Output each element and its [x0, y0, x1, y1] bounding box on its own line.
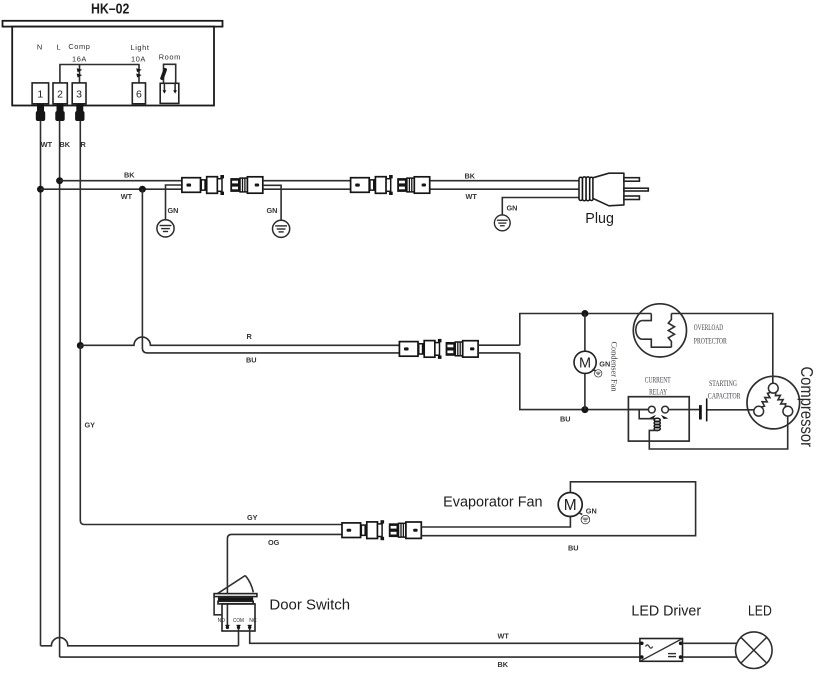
svg-text:BK: BK	[498, 660, 509, 669]
evaporator fan motor M	[558, 493, 582, 517]
connector pair 1 male	[182, 175, 224, 195]
terminal plug 3	[76, 104, 83, 112]
compressor terminal run	[783, 406, 793, 416]
wire R vertical from terminal 3	[79, 121, 81, 346]
wire WT bottom bus with hop	[41, 638, 239, 646]
LED driver terminal dots	[640, 642, 644, 646]
overload protector heater zigzag	[668, 314, 674, 348]
connector pair 4 male	[342, 520, 384, 540]
wire relay coil to compressor run	[649, 416, 787, 449]
wire capacitor to compressor start	[708, 409, 754, 411]
door switch left anchor step	[214, 597, 222, 615]
svg-text:COM: COM	[233, 618, 244, 624]
svg-text:CURRENT: CURRENT	[645, 375, 671, 384]
svg-text:WT: WT	[121, 192, 133, 201]
overload protector circle	[633, 304, 686, 357]
condenser fan motor M	[574, 351, 596, 373]
LED driver diagonal	[640, 639, 683, 662]
svg-text:3: 3	[76, 89, 82, 101]
wire BU to condenser box	[478, 352, 520, 354]
svg-text:LED Driver: LED Driver	[631, 603, 701, 619]
svg-text:CAPACITOR: CAPACITOR	[708, 391, 741, 400]
wire GN tap 3 plug	[502, 198, 580, 216]
door switch lever arc	[245, 576, 253, 593]
wire WT top run	[41, 188, 183, 190]
door switch lever	[215, 576, 246, 596]
compressor winding right	[775, 392, 785, 407]
svg-text:1: 1	[37, 89, 43, 101]
plug prong bottom	[624, 196, 640, 200]
LED lamp circle	[736, 632, 773, 669]
wire R to condenser box	[478, 344, 520, 346]
svg-text:L: L	[56, 43, 61, 52]
wire R run with hop	[80, 337, 399, 345]
svg-text:GY: GY	[247, 513, 258, 522]
wire comp contact drop	[79, 65, 81, 84]
svg-text:HK–02: HK–02	[91, 2, 130, 18]
compressor winding left	[761, 392, 770, 407]
overload protector bimetal path	[642, 314, 671, 348]
plug prong middle	[624, 188, 648, 191]
room connector box	[160, 83, 179, 103]
compressor terminal start	[754, 406, 764, 416]
svg-text:Compressor: Compressor	[797, 367, 817, 448]
connector pair 2 female	[397, 177, 430, 193]
relay contact above terminal 6	[136, 68, 142, 77]
svg-text:GY: GY	[85, 421, 96, 430]
overload protector bimetal arc	[636, 321, 643, 340]
node WT junction top	[37, 186, 44, 193]
svg-text:Condenser Fan: Condenser Fan	[610, 342, 619, 392]
terminal 1	[32, 83, 49, 104]
controller lid bar	[3, 21, 223, 27]
door switch pin NO	[225, 624, 229, 626]
svg-text:GN: GN	[507, 204, 518, 213]
door switch pin NC	[248, 624, 252, 626]
svg-text:BU: BU	[560, 415, 571, 424]
svg-text:BU: BU	[246, 356, 257, 365]
ground 2	[273, 220, 290, 237]
plug prong top	[624, 178, 640, 182]
relay contact circle left	[648, 406, 655, 413]
door switch flange bar	[214, 594, 257, 597]
svg-text:LED: LED	[748, 603, 772, 619]
svg-text:Comp: Comp	[68, 42, 90, 51]
svg-text:WT: WT	[498, 632, 510, 641]
compressor terminal common	[768, 383, 778, 393]
evap fan ground	[581, 515, 590, 524]
connector pair 3 male	[399, 339, 441, 359]
svg-text:Evaporator Fan: Evaporator Fan	[443, 494, 542, 510]
svg-text:Light: Light	[130, 43, 149, 52]
svg-text:16A: 16A	[72, 55, 87, 64]
node R junction	[77, 342, 84, 349]
svg-text:GN: GN	[267, 206, 278, 215]
current relay box	[628, 397, 689, 441]
condenser fan ground tick	[592, 370, 596, 372]
relay coil feed bracket	[639, 410, 654, 419]
node condenser fan bottom tap	[581, 406, 588, 413]
terminal 2	[53, 83, 67, 104]
wire BK vertical from terminal 2	[59, 121, 61, 658]
node WT junction at harness drop	[139, 186, 146, 193]
svg-text:R: R	[81, 140, 87, 149]
connector pair 2 male	[351, 175, 393, 195]
room sensor wires	[164, 64, 176, 83]
svg-text:BU: BU	[568, 544, 579, 553]
svg-text:BK: BK	[124, 171, 135, 180]
svg-text:RELAY: RELAY	[649, 387, 667, 396]
wire harness drop to compressor feed	[142, 189, 399, 353]
svg-text:GN: GN	[168, 206, 179, 215]
controller main box	[12, 27, 214, 106]
svg-text:M: M	[579, 355, 591, 371]
svg-text:WT: WT	[466, 192, 478, 201]
compressor shell circle	[747, 376, 800, 429]
LED driver AC sine	[646, 645, 653, 648]
wire BK bottom bus	[60, 656, 640, 658]
svg-text:NO: NO	[218, 618, 226, 624]
wire relay contact line	[628, 409, 699, 411]
terminal 6	[132, 83, 145, 104]
node BK junction top	[56, 177, 63, 184]
door switch black bar	[218, 597, 253, 601]
svg-text:N: N	[37, 43, 43, 52]
svg-text:WT: WT	[41, 140, 53, 149]
wire BK top run	[60, 180, 183, 182]
svg-text:BK: BK	[465, 172, 476, 181]
door switch pin COM	[237, 624, 241, 626]
wire evap fan return loop	[421, 482, 695, 536]
node condenser fan top tap	[581, 310, 588, 317]
svg-text:2: 2	[57, 89, 63, 101]
svg-text:OVERLOAD: OVERLOAD	[694, 323, 723, 332]
svg-text:Plug: Plug	[585, 211, 614, 227]
wire COM drop	[238, 629, 240, 646]
terminal plug 2	[57, 104, 64, 112]
relay armature arrows	[648, 415, 656, 419]
svg-text:BK: BK	[60, 140, 71, 149]
relay contact above terminal 3	[77, 68, 83, 77]
wire condenser loop left/top/bottom edges	[520, 314, 652, 346]
svg-text:STARTING: STARTING	[709, 379, 737, 388]
wire condenser fan drop	[584, 314, 586, 410]
plug strain relief rings	[579, 177, 593, 201]
relay coil	[654, 418, 660, 430]
wire GY vertical and run	[80, 346, 342, 525]
wire evap fan feed to motor	[421, 516, 570, 527]
evap fan ground tick	[578, 512, 582, 514]
door switch lower bar	[218, 601, 253, 604]
room pin right	[174, 83, 176, 90]
door switch body box	[222, 604, 255, 631]
svg-text:M: M	[564, 497, 577, 514]
terminal 3	[72, 83, 86, 104]
LED lamp cross	[741, 637, 767, 663]
svg-text:OG: OG	[268, 538, 280, 547]
ground 3	[494, 215, 510, 231]
wire driver to LED bottom	[683, 656, 738, 658]
LED driver DC bars	[668, 653, 676, 655]
wire OG run	[227, 534, 342, 625]
svg-text:Door Switch: Door Switch	[269, 598, 350, 614]
wire GN tap 2	[264, 185, 282, 220]
svg-text:6: 6	[136, 89, 142, 101]
svg-text:GN: GN	[599, 360, 610, 369]
terminal plug 1	[37, 104, 44, 112]
wire overload to compressor common	[671, 314, 772, 384]
svg-text:GN: GN	[586, 507, 597, 516]
svg-text:NC: NC	[249, 618, 256, 624]
wire WT vertical from terminal 1	[40, 121, 42, 646]
connector pair 1 female	[230, 177, 262, 193]
room pin left	[163, 83, 165, 90]
wire driver to LED top	[683, 642, 738, 644]
room thermistor	[160, 68, 168, 81]
relay contact circle right	[662, 406, 669, 413]
condenser fan ground	[595, 370, 602, 377]
internal bus wire L to relay contacts	[60, 65, 139, 84]
wire GN tap 1	[166, 185, 183, 220]
starting capacitor plate right	[706, 398, 708, 421]
connector pair 3 female	[446, 341, 479, 357]
svg-text:R: R	[247, 332, 253, 341]
svg-text:PROTECTOR: PROTECTOR	[694, 336, 727, 345]
svg-text:Room: Room	[159, 52, 181, 61]
starting capacitor plate left	[699, 405, 702, 419]
wire NC to LED driver	[250, 629, 640, 644]
LED driver box	[640, 639, 683, 662]
connector pair 4 female	[389, 522, 422, 538]
ground 1	[157, 220, 174, 237]
plug body	[593, 173, 624, 206]
svg-text:10A: 10A	[131, 55, 146, 64]
